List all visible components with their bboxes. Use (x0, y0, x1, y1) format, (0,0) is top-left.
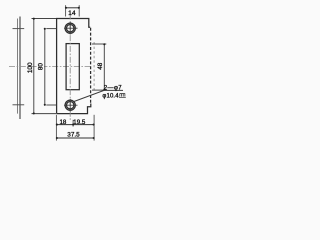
svg-text:48: 48 (97, 62, 104, 70)
svg-text:14: 14 (68, 10, 76, 17)
svg-text:80: 80 (37, 63, 44, 71)
svg-text:100: 100 (27, 62, 34, 73)
svg-text:19.5: 19.5 (73, 119, 86, 126)
svg-text:2—φ7: 2—φ7 (104, 85, 122, 91)
svg-text:18: 18 (59, 119, 66, 126)
svg-text:φ10.4: φ10.4 (102, 94, 119, 100)
svg-text:37.5: 37.5 (67, 132, 80, 139)
